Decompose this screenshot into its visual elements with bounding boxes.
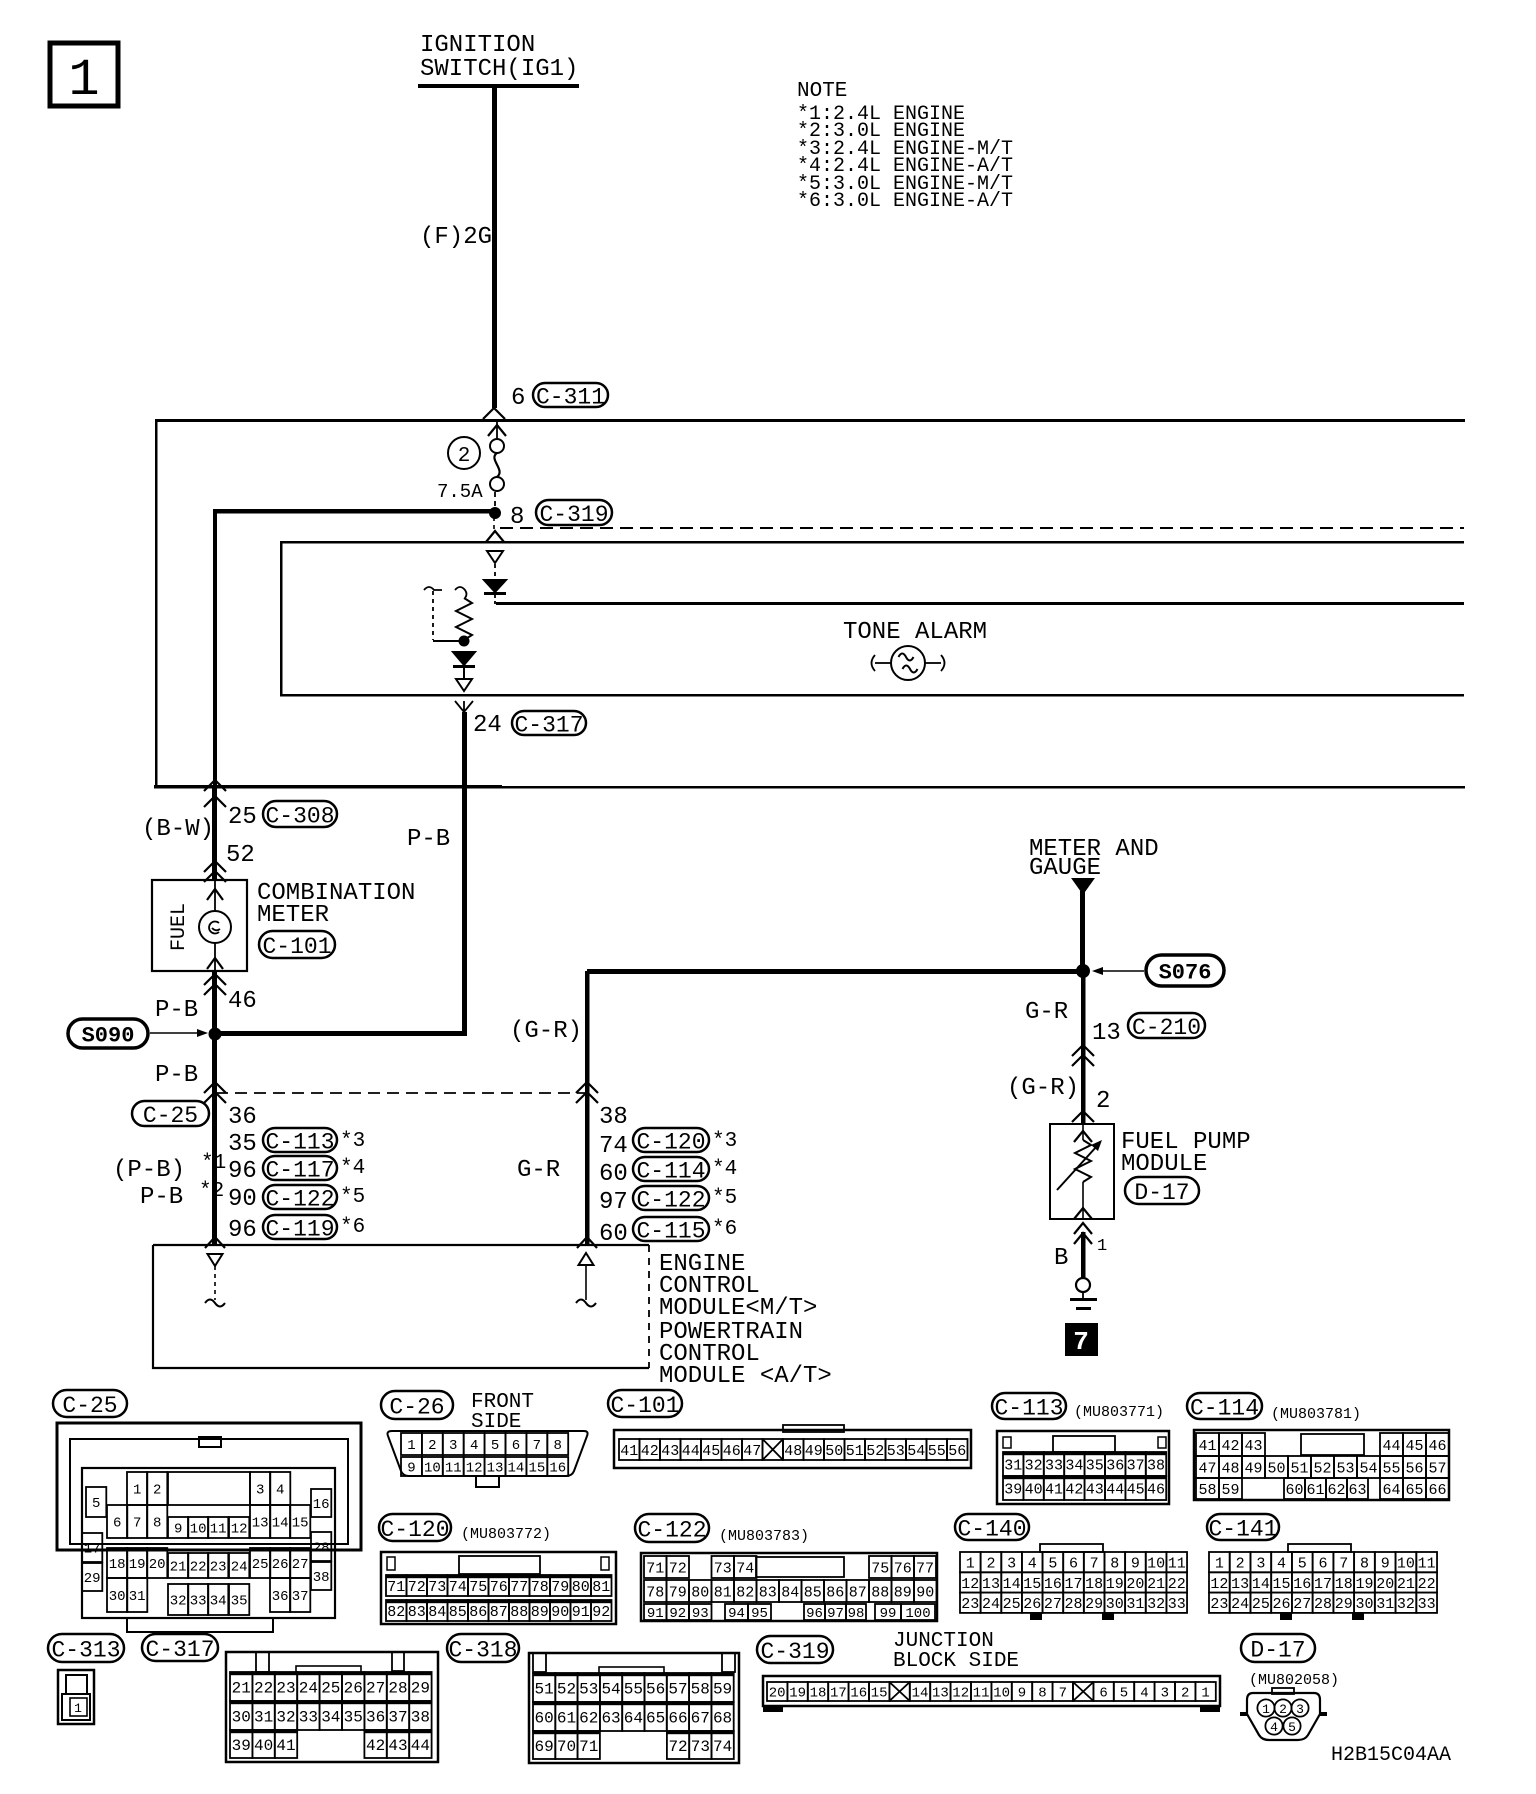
wire junction node to tone alarm	[493, 517, 495, 532]
connector C-114 oval	[633, 1157, 709, 1181]
svg-text:60: 60	[1285, 1482, 1303, 1499]
svg-text:P-B: P-B	[155, 1062, 198, 1089]
svg-text:56: 56	[646, 1680, 665, 1698]
connector mark at fuel pump pin 2	[1072, 1111, 1094, 1122]
svg-text:27: 27	[1044, 1596, 1062, 1613]
svg-text:89: 89	[894, 1584, 912, 1601]
svg-text:90: 90	[228, 1186, 257, 1213]
svg-text:5: 5	[92, 1496, 100, 1512]
fuse 2 element	[494, 453, 499, 477]
connector mark at ECM right input	[577, 1237, 597, 1248]
svg-text:*6: *6	[712, 1218, 737, 1241]
svg-text:93: 93	[692, 1606, 709, 1622]
svg-text:SWITCH(IG1): SWITCH(IG1)	[420, 56, 578, 83]
svg-text:C-119: C-119	[265, 1216, 334, 1242]
svg-text:29: 29	[84, 1571, 101, 1587]
svg-text:8: 8	[1360, 1556, 1369, 1573]
wire (G-R) corner from meter bus to ECM	[585, 971, 590, 1245]
svg-text:50: 50	[825, 1443, 843, 1460]
svg-text:16: 16	[850, 1686, 867, 1702]
svg-text:10: 10	[1397, 1556, 1415, 1573]
svg-text:C-317: C-317	[145, 1637, 214, 1663]
svg-text:55: 55	[1382, 1460, 1400, 1477]
svg-text:87: 87	[490, 1604, 508, 1621]
svg-text:31: 31	[254, 1708, 273, 1726]
svg-text:23: 23	[210, 1560, 227, 1576]
svg-text:71: 71	[646, 1560, 664, 1577]
connector mark below tone alarm box pin 24	[455, 701, 473, 712]
svg-text:38: 38	[313, 1570, 330, 1586]
svg-text:20: 20	[1376, 1576, 1394, 1593]
svg-text:98: 98	[848, 1606, 865, 1622]
svg-text:36: 36	[366, 1708, 385, 1726]
wire into fuse from junction block top	[496, 422, 498, 439]
svg-text:40: 40	[1025, 1481, 1043, 1498]
svg-text:1: 1	[1201, 1686, 1209, 1702]
svg-text:41: 41	[276, 1737, 295, 1755]
svg-text:*5: *5	[340, 1186, 365, 1209]
svg-text:81: 81	[714, 1584, 732, 1601]
connector C-140 pinout	[1040, 1544, 1103, 1552]
svg-text:25: 25	[1003, 1596, 1021, 1613]
connector C-101 label	[608, 1390, 682, 1417]
svg-text:46: 46	[228, 988, 257, 1015]
svg-text:6: 6	[1319, 1556, 1328, 1573]
connector C-119 oval	[263, 1215, 337, 1239]
connector C-141 pinout	[1288, 1544, 1351, 1552]
connector mark at ECM left input	[205, 1237, 225, 1248]
svg-text:(G-R): (G-R)	[510, 1018, 582, 1045]
svg-text:(MU803771): (MU803771)	[1074, 1404, 1164, 1421]
svg-text:42: 42	[1065, 1481, 1083, 1498]
svg-text:13: 13	[932, 1686, 949, 1702]
connector C-317 oval	[512, 711, 586, 735]
svg-text:14: 14	[508, 1461, 525, 1477]
svg-text:56: 56	[948, 1443, 966, 1460]
svg-text:96: 96	[806, 1606, 823, 1622]
svg-text:38: 38	[411, 1708, 430, 1726]
svg-text:72: 72	[668, 1738, 687, 1756]
svg-text:11: 11	[1418, 1556, 1436, 1573]
svg-text:80: 80	[691, 1584, 709, 1601]
svg-text:4: 4	[1140, 1686, 1148, 1702]
svg-text:66: 66	[1428, 1482, 1446, 1499]
svg-text:64: 64	[624, 1709, 643, 1727]
svg-text:*6:3.0L ENGINE-A/T: *6:3.0L ENGINE-A/T	[797, 190, 1013, 213]
svg-text:46: 46	[1428, 1438, 1446, 1455]
svg-text:C-122: C-122	[265, 1186, 334, 1212]
connector C-25 pinout housing	[57, 1423, 361, 1550]
connector C-311 oval	[533, 383, 608, 407]
svg-text:23: 23	[961, 1596, 979, 1613]
svg-text:31: 31	[1376, 1596, 1394, 1613]
svg-text:45: 45	[702, 1443, 720, 1460]
svg-text:(MU803772): (MU803772)	[461, 1526, 551, 1543]
junction block internal dashed bus	[500, 527, 1464, 529]
dashed branch left of resistor	[432, 591, 434, 640]
svg-text:C-308: C-308	[265, 803, 334, 829]
svg-text:44: 44	[1382, 1438, 1400, 1455]
wire diode D1 to bus line	[494, 595, 496, 604]
svg-text:33: 33	[1045, 1457, 1063, 1474]
svg-text:84: 84	[781, 1584, 799, 1601]
engine control module box	[153, 1245, 649, 1368]
svg-text:60: 60	[535, 1709, 554, 1727]
svg-text:C-113: C-113	[265, 1129, 334, 1155]
svg-text:77: 77	[510, 1579, 528, 1596]
svg-text:2: 2	[1096, 1088, 1110, 1115]
connector C-319 label	[757, 1636, 833, 1663]
connector C-122 oval right	[633, 1186, 709, 1210]
svg-text:59: 59	[1221, 1482, 1239, 1499]
svg-text:74: 74	[449, 1579, 467, 1596]
svg-text:(MU802058): (MU802058)	[1249, 1672, 1339, 1689]
svg-text:54: 54	[1359, 1460, 1377, 1477]
svg-text:9: 9	[1131, 1556, 1140, 1573]
svg-text:24: 24	[231, 1560, 248, 1576]
svg-text:50: 50	[1267, 1460, 1285, 1477]
svg-text:18: 18	[810, 1686, 827, 1702]
svg-text:1: 1	[1262, 1702, 1270, 1717]
svg-text:24: 24	[1231, 1596, 1249, 1613]
svg-text:30: 30	[1106, 1596, 1124, 1613]
svg-text:19: 19	[789, 1686, 806, 1702]
svg-text:82: 82	[387, 1604, 405, 1621]
svg-text:41: 41	[1045, 1481, 1063, 1498]
svg-text:68: 68	[713, 1709, 732, 1727]
connector C-26 pinout	[388, 1431, 588, 1476]
svg-text:IGNITION: IGNITION	[420, 32, 535, 59]
svg-text:62: 62	[579, 1709, 598, 1727]
svg-text:14: 14	[1252, 1576, 1270, 1593]
svg-text:35: 35	[1086, 1457, 1104, 1474]
combination meter FUEL gauge box	[152, 880, 247, 971]
svg-text:32: 32	[1397, 1596, 1415, 1613]
svg-text:96: 96	[228, 1217, 257, 1244]
svg-text:16: 16	[1293, 1576, 1311, 1593]
svg-text:13: 13	[252, 1516, 269, 1532]
svg-text:GAUGE: GAUGE	[1029, 855, 1101, 882]
arrow S090 to node	[150, 1032, 204, 1034]
svg-text:C-140: C-140	[957, 1516, 1026, 1542]
svg-text:38: 38	[1147, 1457, 1165, 1474]
svg-text:53: 53	[579, 1680, 598, 1698]
svg-text:97: 97	[599, 1189, 628, 1216]
svg-text:D-17: D-17	[1250, 1637, 1305, 1663]
svg-text:42: 42	[366, 1737, 385, 1755]
svg-text:6: 6	[113, 1516, 121, 1532]
svg-text:30: 30	[232, 1708, 251, 1726]
connector C-114 pinout	[1194, 1430, 1449, 1500]
svg-text:61: 61	[1306, 1482, 1324, 1499]
fuse 2 top terminal circle	[490, 439, 504, 453]
svg-text:34: 34	[1065, 1457, 1083, 1474]
svg-text:85: 85	[804, 1584, 822, 1601]
svg-text:33: 33	[299, 1708, 318, 1726]
svg-text:NOTE: NOTE	[797, 80, 847, 103]
svg-text:9: 9	[407, 1461, 415, 1477]
svg-text:75: 75	[871, 1560, 889, 1577]
svg-text:C-311: C-311	[536, 384, 605, 410]
svg-text:24: 24	[473, 712, 502, 739]
bus wire splice to G-R corner	[587, 969, 1083, 974]
svg-text:74: 74	[713, 1738, 732, 1756]
svg-text:53: 53	[1336, 1460, 1354, 1477]
svg-text:91: 91	[572, 1604, 590, 1621]
svg-text:TONE ALARM: TONE ALARM	[843, 619, 987, 646]
connector C-25 pins	[127, 1472, 147, 1505]
node dot resistor/diode junction	[459, 636, 469, 646]
svg-text:11: 11	[973, 1686, 990, 1702]
svg-text:*4: *4	[340, 1157, 365, 1180]
svg-text:*6: *6	[340, 1216, 365, 1239]
connector C-101 oval	[259, 931, 335, 958]
svg-text:17: 17	[830, 1686, 847, 1702]
fuel pump module box	[1050, 1124, 1114, 1219]
svg-text:71: 71	[579, 1738, 598, 1756]
svg-text:72: 72	[408, 1579, 426, 1596]
wire splice to tone alarm wire corner	[214, 1031, 467, 1036]
svg-text:73: 73	[428, 1579, 446, 1596]
svg-text:(B-W): (B-W)	[142, 816, 214, 843]
svg-text:88: 88	[871, 1584, 889, 1601]
svg-text:12: 12	[466, 1461, 483, 1477]
svg-text:*4: *4	[712, 1158, 737, 1181]
svg-text:33: 33	[1168, 1596, 1186, 1613]
splice node S090 dot	[209, 1028, 221, 1040]
svg-text:90: 90	[551, 1604, 569, 1621]
svg-text:21: 21	[170, 1560, 187, 1576]
svg-text:14: 14	[912, 1686, 929, 1702]
connector mark at C-210	[1072, 1045, 1094, 1056]
svg-text:5: 5	[1298, 1556, 1307, 1573]
svg-text:13: 13	[1092, 1020, 1121, 1047]
svg-text:5: 5	[1048, 1556, 1057, 1573]
svg-text:15: 15	[1023, 1576, 1041, 1593]
svg-text:2: 2	[153, 1483, 161, 1499]
svg-text:1: 1	[1097, 1237, 1107, 1256]
svg-text:C-101: C-101	[610, 1393, 679, 1419]
svg-text:7: 7	[1059, 1686, 1067, 1702]
svg-text:11: 11	[1168, 1556, 1186, 1573]
resistor R in tone alarm	[456, 598, 472, 640]
svg-text:C-113: C-113	[994, 1395, 1063, 1421]
connector C-115 oval	[633, 1217, 709, 1241]
connector C-122 pinout	[641, 1553, 937, 1621]
svg-text:4: 4	[470, 1438, 478, 1454]
svg-text:C-313: C-313	[51, 1637, 120, 1663]
svg-text:51: 51	[535, 1680, 554, 1698]
svg-text:3: 3	[256, 1483, 264, 1499]
svg-text:2: 2	[1181, 1686, 1189, 1702]
svg-text:C-120: C-120	[380, 1517, 449, 1543]
svg-text:C-318: C-318	[448, 1637, 517, 1663]
splice S076 oval	[1146, 955, 1224, 986]
connector C-25 oval	[132, 1101, 209, 1126]
svg-text:(MU803783): (MU803783)	[719, 1528, 809, 1545]
svg-text:37: 37	[388, 1708, 407, 1726]
svg-text:C-115: C-115	[636, 1218, 705, 1244]
svg-text:18: 18	[1085, 1576, 1103, 1593]
svg-text:13: 13	[487, 1461, 504, 1477]
svg-text:27: 27	[366, 1679, 385, 1697]
svg-text:47: 47	[743, 1443, 761, 1460]
svg-text:33: 33	[1418, 1596, 1436, 1613]
svg-text:28: 28	[1314, 1596, 1332, 1613]
svg-text:65: 65	[1405, 1482, 1423, 1499]
wire fuse to junction node	[494, 492, 496, 508]
svg-text:54: 54	[601, 1680, 620, 1698]
svg-text:85: 85	[449, 1604, 467, 1621]
fuse 2 bottom terminal circle	[490, 477, 504, 491]
svg-text:51: 51	[1290, 1460, 1308, 1477]
svg-text:31: 31	[1004, 1457, 1022, 1474]
svg-text:18: 18	[1335, 1576, 1353, 1593]
svg-text:73: 73	[691, 1738, 710, 1756]
connector C-113 pinout	[997, 1431, 1169, 1504]
svg-text:53: 53	[887, 1443, 905, 1460]
svg-text:39: 39	[1004, 1481, 1022, 1498]
svg-text:43: 43	[661, 1443, 679, 1460]
connector C-210 oval	[1128, 1013, 1205, 1038]
connector C-308 oval	[263, 801, 337, 827]
svg-text:8: 8	[1038, 1686, 1046, 1702]
connector C-120 pinout	[381, 1552, 616, 1624]
svg-text:*1: *1	[201, 1152, 226, 1175]
svg-text:C-117: C-117	[265, 1157, 334, 1183]
svg-text:88: 88	[510, 1604, 528, 1621]
svg-text:P-B: P-B	[407, 826, 450, 853]
connector C-113 label	[992, 1393, 1066, 1419]
wire into fuel gauge	[214, 880, 216, 912]
svg-text:74: 74	[736, 1560, 754, 1577]
connector C-113 oval	[263, 1128, 337, 1152]
svg-text:42: 42	[641, 1443, 659, 1460]
svg-text:41: 41	[1198, 1438, 1216, 1455]
wire B-W junction block to combination meter	[212, 788, 217, 881]
svg-text:1: 1	[133, 1483, 141, 1499]
tone alarm sounder symbol	[891, 646, 925, 680]
svg-text:35: 35	[231, 1594, 248, 1610]
svg-text:90: 90	[916, 1584, 934, 1601]
connector mark on G-R wire at dashed line	[576, 1082, 598, 1093]
wire left branch down inside junction block	[213, 509, 217, 788]
svg-text:84: 84	[428, 1604, 446, 1621]
ECM left pin arrow	[208, 1254, 223, 1266]
page number box 1	[50, 43, 118, 106]
connector C-122 oval	[263, 1185, 337, 1209]
connector C-26 label	[381, 1391, 453, 1419]
svg-text:23: 23	[1210, 1596, 1228, 1613]
svg-text:BLOCK SIDE: BLOCK SIDE	[893, 1650, 1019, 1673]
svg-text:D-17: D-17	[1134, 1180, 1189, 1206]
svg-text:10: 10	[424, 1461, 441, 1477]
diode D1 (zener to bus)	[484, 580, 506, 592]
svg-text:4: 4	[1028, 1556, 1037, 1573]
svg-text:7: 7	[133, 1516, 141, 1532]
svg-text:14: 14	[1003, 1576, 1021, 1593]
svg-text:40: 40	[254, 1737, 273, 1755]
ground symbol	[1070, 1298, 1097, 1301]
svg-text:100: 100	[905, 1606, 930, 1622]
connector C-319 oval	[536, 500, 612, 525]
svg-text:5: 5	[491, 1438, 499, 1454]
svg-text:8: 8	[554, 1438, 562, 1454]
svg-text:55: 55	[928, 1443, 946, 1460]
svg-text:C-317: C-317	[514, 712, 583, 738]
svg-text:46: 46	[1147, 1481, 1165, 1498]
svg-text:45: 45	[1127, 1481, 1145, 1498]
svg-text:22: 22	[1168, 1576, 1186, 1593]
svg-text:1: 1	[68, 51, 99, 110]
svg-text:83: 83	[408, 1604, 426, 1621]
svg-text:5: 5	[1120, 1686, 1128, 1702]
svg-text:19: 19	[1106, 1576, 1124, 1593]
svg-text:C-101: C-101	[262, 934, 331, 960]
svg-text:24: 24	[299, 1679, 318, 1697]
svg-text:44: 44	[1106, 1481, 1124, 1498]
ground terminal circle	[1076, 1278, 1090, 1292]
svg-text:89: 89	[531, 1604, 549, 1621]
svg-text:46: 46	[723, 1443, 741, 1460]
svg-text:9: 9	[174, 1522, 182, 1538]
svg-text:48: 48	[784, 1443, 802, 1460]
svg-text:37: 37	[292, 1589, 309, 1605]
svg-text:9: 9	[1381, 1556, 1390, 1573]
svg-text:81: 81	[592, 1579, 610, 1596]
wire out of fuel gauge	[214, 943, 216, 971]
svg-text:52: 52	[557, 1680, 576, 1698]
wire combination meter to splice S090	[212, 971, 217, 1034]
svg-text:54: 54	[907, 1443, 925, 1460]
svg-text:13: 13	[982, 1576, 1000, 1593]
svg-text:52: 52	[226, 842, 255, 869]
svg-text:44: 44	[682, 1443, 700, 1460]
svg-text:1: 1	[1215, 1556, 1224, 1573]
svg-text:79: 79	[669, 1584, 687, 1601]
svg-text:43: 43	[1086, 1481, 1104, 1498]
svg-text:26: 26	[272, 1557, 289, 1573]
connector D-17 oval	[1125, 1177, 1199, 1204]
svg-text:58: 58	[1198, 1482, 1216, 1499]
svg-text:FUEL: FUEL	[168, 903, 191, 951]
fuse number 2 circle	[448, 437, 480, 469]
diode D2 in tone alarm	[453, 652, 475, 665]
svg-text:66: 66	[668, 1709, 687, 1727]
svg-text:29: 29	[1335, 1596, 1353, 1613]
svg-text:26: 26	[1023, 1596, 1041, 1613]
svg-text:52: 52	[866, 1443, 884, 1460]
svg-text:22: 22	[254, 1679, 273, 1697]
connector C-317 label	[142, 1634, 218, 1661]
svg-text:13: 13	[1231, 1576, 1249, 1593]
tone alarm output arrow	[456, 679, 472, 691]
svg-text:57: 57	[1428, 1460, 1446, 1477]
svg-text:21: 21	[1147, 1576, 1165, 1593]
svg-text:C-25: C-25	[62, 1393, 117, 1419]
connector C-140 label	[955, 1514, 1029, 1540]
arrow S076 to node	[1096, 970, 1144, 972]
svg-text:23: 23	[276, 1679, 295, 1697]
svg-text:27: 27	[1293, 1596, 1311, 1613]
svg-text:21: 21	[232, 1679, 251, 1697]
svg-text:56: 56	[1405, 1460, 1423, 1477]
svg-text:2: 2	[986, 1556, 995, 1573]
svg-text:H2B15C04AA: H2B15C04AA	[1331, 1744, 1451, 1767]
connector C-120 label	[379, 1514, 451, 1541]
svg-text:28: 28	[1065, 1596, 1083, 1613]
svg-text:(F)2G: (F)2G	[420, 224, 492, 251]
